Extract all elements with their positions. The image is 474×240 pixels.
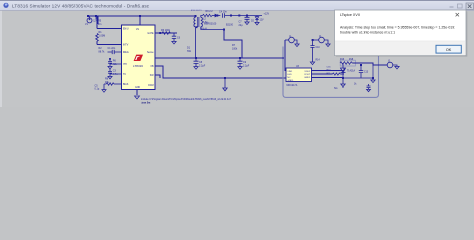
node emitter dot (342, 77, 344, 79)
capacitor C8 (194, 58, 199, 67)
ground (B1) (295, 44, 299, 47)
op-amp U1 (LT8316 IC body) (122, 25, 156, 90)
svg-text:+12V: +12V (264, 12, 270, 15)
svg-text:R14: R14 (316, 60, 321, 62)
svg-text:B2100: B2100 (226, 24, 234, 27)
capacitor C13 (359, 65, 363, 78)
capacitor C10 (310, 40, 314, 62)
node FB dot (224, 77, 226, 79)
svg-text:include C:\Program Files\LTC\L: include C:\Program Files\LTC\LTspiceXVII… (141, 98, 231, 101)
diode D1 (212, 14, 220, 17)
wire TC stub (155, 75, 160, 78)
svg-text:TL431A: TL431A (347, 70, 356, 73)
behavioral source B1 (285, 37, 297, 44)
LT logo (134, 55, 143, 61)
dialog footer separator (335, 40, 466, 43)
node output dot B (246, 15, 248, 17)
svg-text:VOUT: VOUT (304, 74, 311, 76)
voltage source V1 (87, 16, 92, 23)
behavioral source B2 (313, 37, 328, 44)
svg-text:GATE: GATE (147, 32, 154, 35)
svg-text:1.00M: 1.00M (99, 35, 106, 38)
svg-text:R6 100k: R6 100k (161, 29, 171, 32)
svg-text:22µ: 22µ (239, 24, 244, 27)
ground (C6) (172, 41, 176, 44)
svg-text:FB: FB (151, 66, 154, 68)
svg-text:4N8: 4N8 (349, 59, 354, 61)
dialog close X (456, 13, 459, 16)
ground (C7) (245, 22, 249, 25)
svg-text:NC: NC (287, 77, 291, 79)
minimize button (450, 6, 454, 8)
ground (C10) (310, 62, 314, 65)
annotation rect around R16 (340, 60, 355, 66)
title bar top edge (0, 0, 474, 1)
capacitor C7 (245, 16, 250, 23)
svg-text:ITH: ITH (123, 64, 127, 66)
annotation rounded box (283, 47, 379, 98)
ground (IC) (135, 96, 140, 99)
zener D2 (255, 16, 258, 23)
resistor R8 (104, 83, 122, 90)
node secondary dot (223, 29, 225, 31)
wire top rail (88, 15, 196, 17)
capacitor C3 (108, 69, 122, 76)
svg-text:C10: C10 (316, 47, 321, 49)
svg-text:SG: SG (334, 87, 338, 90)
maximize button (458, 4, 463, 8)
wire opto collector (312, 68, 345, 71)
wire FB net (155, 66, 286, 78)
svg-text:2.2µF: 2.2µF (199, 64, 206, 67)
window title bar (0, 0, 474, 11)
ground (C9) (238, 67, 242, 70)
wire R11 to TL431 (340, 73, 344, 75)
svg-text:12V: 12V (260, 19, 265, 21)
resistor R11 (333, 73, 341, 75)
svg-text:C4 10n: C4 10n (219, 11, 227, 14)
resistor R16 (340, 62, 352, 65)
wire IC ground (136, 90, 138, 96)
schematic background (0, 0, 474, 107)
svg-text:EN/U: EN/U (123, 29, 129, 31)
svg-text:GND2: GND2 (304, 77, 311, 79)
capacitor C2 (108, 59, 122, 67)
close button (466, 3, 473, 10)
svg-text:Analysis: Time step too small;: Analysis: Time step too small; time = 5.… (340, 26, 455, 30)
resistor R1 (96, 34, 99, 43)
transformer T1 primary winding L1 (194, 16, 196, 58)
cap bottom cluster (367, 84, 371, 92)
small ground cluster left (342, 87, 344, 88)
title bar bottom divider (0, 9, 474, 12)
svg-text:MOC217A: MOC217A (287, 84, 298, 87)
node Vin dot (139, 15, 141, 17)
node C9 dot (239, 57, 241, 59)
svg-text:88.7k: 88.7k (99, 51, 106, 54)
dialog body (335, 10, 467, 56)
svg-text:Sense: Sense (147, 52, 154, 54)
svg-text:4.7n: 4.7n (113, 73, 118, 76)
wire opto vout (312, 73, 333, 75)
ground (right branch) (371, 80, 375, 83)
transformer T1 secondary winding L2 (201, 16, 224, 30)
svg-text:LT8316 Simulator 12V 48/85/305: LT8316 Simulator 12V 48/85/305VAC techno… (12, 3, 150, 8)
OK button (436, 45, 461, 53)
ground (B2) (326, 44, 330, 47)
svg-text:MBRS3100: MBRS3100 (204, 22, 217, 25)
behavioral source B3 (387, 62, 397, 68)
ground (FB net) (223, 78, 227, 91)
svg-text:2m: 2m (98, 23, 101, 26)
capacitor C4 series (222, 13, 262, 18)
ground (R8) (102, 90, 106, 93)
svg-text:BIAS: BIAS (123, 83, 129, 86)
capacitor C1 (108, 50, 122, 54)
svg-text:0.1µ: 0.1µ (95, 88, 100, 91)
opto U2 body (286, 68, 312, 82)
wire divider pin1 (97, 16, 122, 29)
svg-text:C1 22n: C1 22n (108, 47, 116, 50)
svg-text:OK: OK (446, 48, 452, 52)
wire opto bias vertical (285, 40, 286, 71)
svg-text:trouble with u1:intc-instance: trouble with u1:intc-instance m:u1:1 (340, 30, 395, 34)
node C13 top dot (360, 64, 362, 66)
ground (B3) (395, 66, 399, 69)
svg-text:GND: GND (135, 87, 140, 89)
node GATE dot (159, 32, 161, 34)
dialog footer strip (335, 41, 466, 55)
dialog shadow (336, 11, 468, 56)
capacitor C6 (172, 33, 176, 41)
wire Vin drop to IC (139, 16, 141, 25)
ground (TL431) (341, 78, 345, 87)
svg-text:.tran 5m: .tran 5m (141, 102, 150, 105)
svg-text:100k: 100k (232, 47, 238, 50)
node winding junction dot (196, 26, 198, 28)
resistor R9 output (203, 14, 213, 16)
TL431 U3 (341, 63, 346, 78)
capacitor C9 (238, 58, 243, 67)
transformer T1 core (198, 17, 199, 27)
wire secondary return (224, 30, 242, 59)
svg-text:TC: TC (123, 74, 126, 76)
LTspice app icon (3, 3, 8, 8)
svg-text:LTspice XVII: LTspice XVII (340, 13, 360, 17)
wire divider pin2 (97, 42, 122, 45)
ground (C2) (108, 66, 112, 69)
svg-text:K1 L1 L2 1: K1 L1 L2 1 (191, 10, 202, 12)
svg-text:LED: LED (287, 74, 292, 76)
node input A dot (87, 15, 89, 17)
node input B dot (95, 15, 97, 17)
wire input divider vertical (97, 16, 99, 24)
svg-text:VIN1: VIN1 (287, 71, 293, 73)
wire C13 bottom (343, 65, 373, 80)
svg-text:INTV: INTV (123, 45, 129, 47)
svg-text:LT8316: LT8316 (133, 64, 143, 68)
svg-text:IREG: IREG (123, 52, 129, 54)
svg-text:R16: R16 (340, 59, 345, 61)
node output dot C (238, 15, 240, 17)
ground (D2) (255, 22, 259, 25)
node C2 dot (109, 58, 111, 60)
node box junction dot (282, 57, 284, 59)
window left border highlight (0, 10, 2, 107)
svg-text:DCM: DCM (148, 85, 153, 87)
node right dot (372, 77, 374, 79)
fuse F1 (95, 16, 97, 19)
wire INTVCC net (155, 57, 283, 59)
svg-text:VDD2: VDD2 (304, 71, 311, 73)
svg-text:C13: C13 (364, 72, 369, 74)
ground (C8) (194, 67, 198, 70)
node C8 dot (195, 57, 197, 59)
svg-text:GND1: GND1 (287, 80, 294, 82)
svg-text:40µH: 40µH (201, 27, 207, 30)
svg-text:R9 2.2: R9 2.2 (206, 10, 214, 13)
resistor R6 (162, 32, 170, 35)
ground (C3) (108, 76, 112, 79)
node output dot A (230, 15, 232, 17)
node C10 tap dot (312, 39, 314, 41)
svg-text:2.2µF: 2.2µF (243, 64, 250, 67)
node transformer dot (195, 15, 197, 17)
wire GATE net (155, 32, 177, 34)
wire opto emitter (312, 77, 344, 79)
wire R16 to t3 (352, 63, 387, 65)
